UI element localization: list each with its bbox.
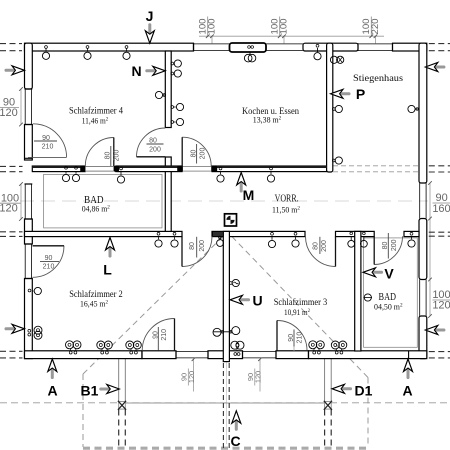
section arrow right edge bottom [425, 326, 445, 335]
svg-text:13,38 m2: 13,38 m2 [253, 116, 282, 125]
socket top wall x87 [84, 46, 91, 60]
door arc BAD left [85, 138, 114, 167]
door arc Schlafz3-VORR [306, 237, 336, 267]
vorr wall segment 2 [212, 231, 305, 236]
door leaf Kochen [181, 137, 183, 166]
bottom wall block 2 [208, 351, 243, 359]
svg-text:Schlafzimmer 4: Schlafzimmer 4 [69, 106, 123, 116]
svg-text:A: A [47, 383, 57, 399]
vorr wall dashes right [429, 231, 450, 233]
ROOM LABELS [69, 73, 403, 317]
socket central wall left y331 [213, 328, 232, 336]
lamp pair top wall x337 [330, 56, 343, 63]
door leaf Schlafz3 terrace [276, 321, 278, 351]
socket pair BAD left top [62, 166, 79, 181]
kochen door sill light [183, 166, 212, 171]
svg-text:L: L [103, 262, 112, 278]
door leaf Schlafzimmer 4 [137, 156, 166, 158]
top rotated window labels [197, 17, 381, 37]
dark pier between door and central wall [213, 232, 224, 237]
right wall block 2 [419, 219, 427, 280]
socket central wall right y331 [230, 327, 240, 335]
chimney left box [118, 401, 126, 410]
sockets wall x171 right top [171, 60, 182, 67]
svg-text:80: 80 [312, 242, 319, 250]
svg-text:210: 210 [43, 264, 55, 271]
vorr wall segment 4 [404, 231, 419, 236]
section arrow A left [47, 359, 57, 399]
left wall block 2 [25, 125, 33, 161]
svg-text:120: 120 [0, 107, 18, 119]
socket stiegenhaus right wall [408, 105, 419, 112]
distribution board symbol VORR [225, 214, 237, 226]
bottom wall block 1 [25, 351, 143, 359]
svg-text:P: P [356, 86, 365, 102]
right window extension [429, 183, 431, 316]
window left 2 [24, 184, 26, 219]
svg-text:200: 200 [391, 239, 398, 251]
switch BAD right wall x362 [364, 294, 372, 301]
door arc Schlafz2 terrace [142, 319, 174, 351]
svg-text:210: 210 [42, 143, 54, 150]
socket kochen right wall y160 [332, 157, 342, 164]
left wall block 3 [25, 219, 33, 244]
door/window caps on thick walls [25, 43, 409, 358]
roof hip left [83, 233, 227, 374]
door leaf Schlafz2-VORR [181, 237, 183, 267]
window right 2 [419, 280, 421, 317]
terrace bottom thick dashed edge [83, 447, 368, 450]
section arrow M [237, 173, 255, 204]
svg-text:120: 120 [432, 300, 450, 312]
svg-text:J: J [146, 8, 154, 24]
svg-text:80: 80 [382, 242, 389, 250]
window right 1 [419, 183, 421, 219]
dimension tick marks [19, 34, 432, 361]
svg-text:U: U [252, 293, 262, 309]
ELECTRICAL SYMBOLS [28, 44, 419, 355]
top wall dashes left [0, 43, 22, 45]
window left 1 [24, 89, 26, 125]
svg-text:VORR.: VORR. [275, 193, 299, 204]
section arrow U [230, 293, 263, 309]
socket below wall y236 x272 [268, 232, 275, 247]
svg-text:C: C [230, 433, 240, 449]
socket pair central wall right y345 [231, 341, 244, 355]
socket top wall x126 [123, 46, 130, 60]
bottom window extensions [193, 359, 195, 392]
socket below wall y236 x220 [217, 236, 224, 246]
socket pair bottom wall x316 [309, 341, 325, 354]
chimney right box [324, 401, 332, 410]
top wall segment mid-right [303, 43, 358, 51]
section arrow left edge bottom [5, 324, 25, 333]
left window extensions [20, 89, 22, 125]
door arc Schlafzimmer 4 entry [137, 128, 166, 157]
sockets wall x171 right mid [171, 103, 184, 110]
chimney left guide lines [119, 359, 126, 401]
bottom wall door sill 2 [276, 351, 309, 359]
top wall pier (window block) [230, 43, 267, 52]
svg-text:04,50 m2: 04,50 m2 [374, 302, 403, 311]
section arrow left edge top [5, 66, 25, 75]
svg-text:N: N [131, 63, 141, 79]
socket pair bottom wall x73 [66, 341, 82, 354]
label 90/210 door schlafz4 [42, 135, 54, 151]
svg-text:Schlafzimmer 3: Schlafzimmer 3 [274, 297, 328, 307]
socket below wall y171 x220 [217, 167, 224, 182]
antenna socket central wall y283 [229, 279, 239, 286]
svg-text:200: 200 [199, 240, 206, 252]
section arrow J [145, 8, 154, 43]
socket below wall y236 x351 [348, 232, 355, 247]
bottom wall door sill 1 [142, 351, 176, 359]
socket pair top pier [244, 46, 255, 62]
top extension line [199, 35, 384, 37]
axis line horizontal [20, 200, 428, 202]
BAD left inset outline [44, 174, 162, 228]
socket kochen right wall y109 [332, 105, 342, 112]
section arrow C [230, 411, 240, 449]
door leaf BAD right [373, 236, 375, 264]
svg-text:200: 200 [149, 146, 161, 153]
svg-text:D1: D1 [355, 383, 373, 399]
svg-text:A: A [402, 383, 412, 399]
interior wall Kochen/Stiegenhaus vertical [327, 43, 333, 172]
vorr wall segment 1 [25, 231, 183, 236]
BAD door sill light [85, 167, 114, 172]
door top (100/220) [358, 43, 393, 45]
DOORS [28, 124, 403, 351]
door left (schlafzimmer 2) [24, 244, 26, 279]
terrace connector solid [126, 402, 324, 404]
socket below wall y236 x295 [292, 232, 299, 247]
door leaf Schlafz3-VORR [335, 237, 337, 267]
right wall block 3 [419, 316, 427, 359]
central wall vertical [223, 231, 229, 361]
socket below wall y236 x364 [361, 232, 368, 247]
DOOR SIZE LABELS rotated [105, 144, 398, 351]
window bottom 1 [176, 351, 208, 353]
interior wall horizontal Kochen bottom [212, 166, 327, 172]
svg-text:04,86 m2: 04,86 m2 [82, 204, 110, 213]
svg-text:120: 120 [0, 203, 18, 215]
vorr wall segment 3 [336, 231, 375, 236]
door arc BAD right [374, 236, 402, 264]
socket below wall y171 x121 [117, 167, 124, 183]
socket top wall x318 [314, 44, 321, 59]
svg-text:10,91 m2: 10,91 m2 [284, 308, 310, 317]
DOOR SIZE LABELS horizontal [34, 135, 168, 351]
door arc Schlafz3 terrace [277, 321, 307, 351]
section arrow V [363, 266, 394, 282]
terrace left edge [82, 374, 84, 447]
WINDOW DIMENSION LABELS (big gray) [0, 97, 450, 312]
bottom wall dashes left [0, 350, 23, 352]
door leaf BAD left [113, 138, 115, 167]
door arc Schlafz2-VORR [182, 237, 212, 267]
mid wall dashes right [429, 165, 450, 167]
interior wall horizontal BAD/Schlafz4 white part [32, 166, 85, 172]
bottom wall dashes right [429, 351, 450, 353]
WALLS [25, 43, 427, 362]
beam dashed lines under Stiegenhaus [333, 166, 419, 172]
svg-text:90: 90 [45, 255, 53, 262]
section arrow right edge top [425, 63, 445, 72]
section arrow A right [402, 359, 412, 399]
section arrow B1 [81, 383, 120, 399]
svg-text:B1: B1 [81, 383, 99, 399]
svg-text:210: 210 [161, 329, 168, 341]
socket below wall y171 x271 [267, 167, 274, 182]
svg-text:200: 200 [113, 150, 120, 162]
door leaf Schlafz2 left [33, 245, 65, 247]
socket pair bottom wall x339 [331, 341, 347, 354]
right wall block 1 [419, 43, 427, 183]
dashed wall continuations at edges [0, 44, 450, 358]
svg-text:160: 160 [432, 203, 450, 215]
sockets below wall y236 x158 x174 [155, 232, 162, 247]
top wall segment left [25, 43, 194, 51]
socket wall x165 left [155, 91, 165, 98]
svg-text:Kochen u. Essen: Kochen u. Essen [242, 106, 299, 116]
bold wall end caps at Kochen door [177, 166, 182, 172]
section arrow L [103, 238, 114, 278]
door arc Schlafz2 left [33, 246, 65, 277]
mid wall dashes left [0, 165, 23, 167]
label 90/210 door schlafz2 terrace (rotated) [153, 329, 169, 341]
chimney right guide lines [325, 359, 332, 401]
left wall top block [25, 43, 33, 89]
svg-text:M: M [243, 187, 255, 203]
label 90/210 door schlafz2 left [43, 255, 55, 271]
svg-text:200: 200 [321, 240, 328, 252]
bottom wall block 3 [309, 351, 427, 359]
bottom rotated window labels [179, 369, 262, 386]
central wall dashed continuation [223, 363, 229, 448]
roof hip right [229, 234, 368, 378]
label 80/200 door schlafz4 entry [149, 138, 161, 154]
interior wall Schlafz4/Kochen upper [165, 51, 171, 128]
WINDOWS (thin double lines with caps) [25, 43, 427, 358]
socket pair bottom wall x105 [97, 341, 113, 354]
svg-text:Schlafzimmer 2: Schlafzimmer 2 [69, 289, 123, 299]
window top 2 [266, 43, 303, 45]
socket pair left wall y333 [28, 326, 42, 339]
section arrow P [331, 86, 366, 102]
bold wall end caps at BAD door [80, 166, 85, 172]
BAD right inset outline [364, 238, 418, 347]
section arrow D1 [332, 383, 373, 399]
svg-text:11,50 m2: 11,50 m2 [272, 206, 300, 215]
section arrow N [131, 63, 165, 79]
socket pair bottom wall x134 [126, 341, 142, 354]
svg-text:V: V [384, 266, 394, 282]
terrace right edge [367, 378, 369, 448]
svg-text:80: 80 [189, 242, 196, 250]
svg-text:200: 200 [200, 148, 207, 160]
vorr wall dashes left [0, 231, 23, 233]
door arc Kochen [182, 137, 211, 166]
socket BAD right below wall [408, 232, 415, 247]
top wall corner right [393, 43, 427, 51]
dimension extension lines [21, 36, 430, 391]
door leaf Schlafz2 terrace [174, 319, 176, 351]
door arc Schlafzimmer 4 left french door [33, 124, 67, 158]
heavy top edge of wall y166 [32, 166, 326, 168]
svg-text:Stiegenhaus: Stiegenhaus [353, 73, 403, 84]
svg-text:11,46 m2: 11,46 m2 [82, 116, 109, 125]
socket top wall x46 [42, 46, 49, 60]
socket left wall y291 [28, 287, 41, 294]
left wall block 4 [25, 279, 33, 359]
axis line vertical (central wall) [225, 236, 227, 444]
window bottom 2 [243, 351, 277, 353]
interior wall Schlafz4/Kochen lower + BAD right wall [165, 157, 171, 236]
top wall dashes right [429, 43, 450, 45]
svg-text:16,45 m2: 16,45 m2 [80, 300, 108, 309]
terrace axis line y403 [0, 402, 450, 404]
svg-text:210: 210 [297, 332, 304, 344]
window top 1 [194, 43, 230, 45]
terrace dashed outline [0, 233, 450, 447]
BAD right left wall [355, 231, 361, 351]
